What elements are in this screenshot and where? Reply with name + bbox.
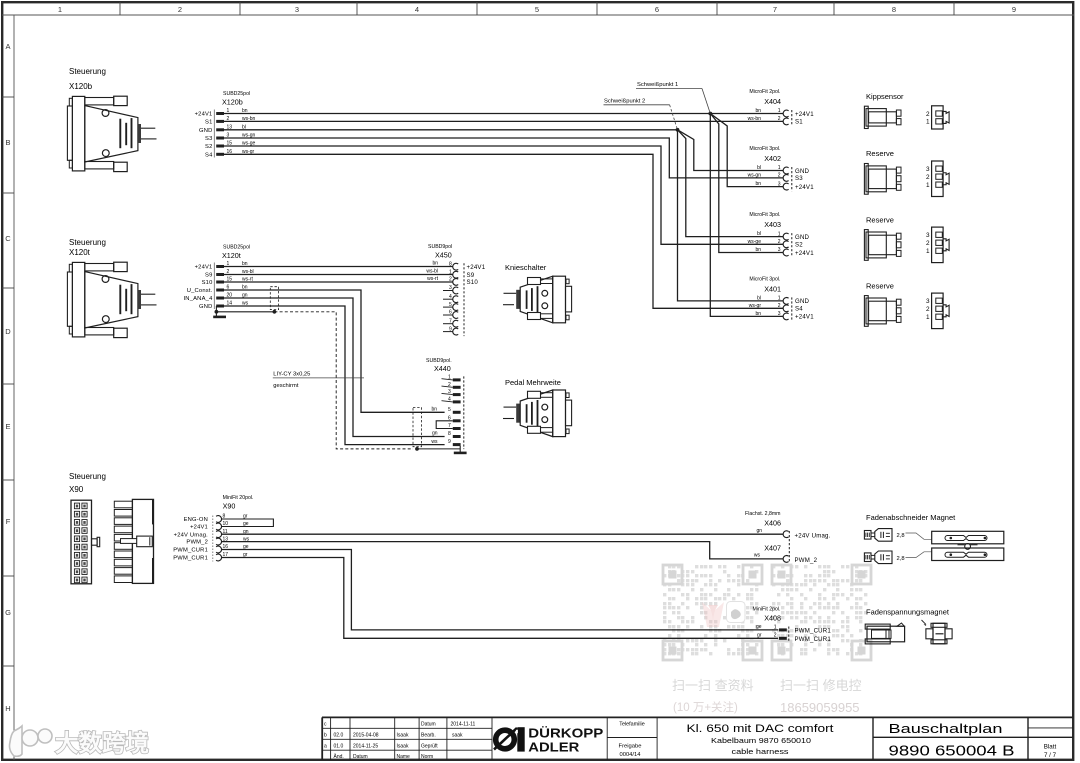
- svg-text:MiniFit 20pol.: MiniFit 20pol.: [223, 495, 254, 501]
- magnet coupling circle: [965, 544, 971, 550]
- svg-text:2: 2: [926, 240, 930, 247]
- wire bl branch to X401.1: [678, 130, 784, 301]
- svg-text:GND: GND: [795, 298, 810, 305]
- wire gn X90.11 to X406: [222, 533, 784, 535]
- svg-text:SUBD25pol: SUBD25pol: [223, 245, 250, 251]
- wire bl branch to X402.1: [678, 130, 784, 171]
- svg-text:2015-04-08: 2015-04-08: [353, 733, 379, 739]
- svg-text:IN_ANA_4: IN_ANA_4: [184, 296, 214, 302]
- wire bl branch to X403.1: [678, 130, 784, 237]
- svg-text:1: 1: [926, 119, 930, 126]
- callout Schweisspunkt 2: [604, 98, 678, 130]
- svg-text:Kl. 650 mit DAC comfort: Kl. 650 mit DAC comfort: [687, 723, 834, 735]
- svg-text:Änd.: Änd.: [334, 753, 344, 760]
- svg-text:U_Const.: U_Const.: [187, 288, 213, 294]
- svg-text:bn: bn: [755, 181, 761, 187]
- wire bn branch to X401.3: [710, 114, 783, 317]
- svg-text:MicroFit 3pol.: MicroFit 3pol.: [749, 276, 780, 282]
- cell Bauschaltplan: [889, 721, 1015, 760]
- connector Reserve 1 front view pins 3 2 1: [926, 161, 949, 197]
- magnet plate upper: [932, 531, 1004, 544]
- svg-text:7: 7: [773, 5, 777, 14]
- svg-text:2: 2: [778, 303, 781, 309]
- svg-text:2: 2: [926, 174, 930, 181]
- svg-text:SUBD9pol.: SUBD9pol.: [426, 358, 452, 364]
- svg-text:A: A: [5, 42, 10, 51]
- connector Pedal Mehrweite D-sub drawing: [503, 390, 572, 437]
- svg-text:b: b: [324, 733, 327, 739]
- svg-text:Steuerung: Steuerung: [69, 238, 106, 247]
- connector X406 X407 (Flachst. 2,8mm): [745, 511, 831, 564]
- svg-text:Telefamilie: Telefamilie: [619, 721, 644, 727]
- svg-text:X408: X408: [764, 614, 781, 623]
- svg-text:02.0: 02.0: [334, 733, 344, 739]
- svg-text:bl: bl: [757, 165, 761, 171]
- svg-text:MicroFit 2pol.: MicroFit 2pol.: [749, 89, 780, 95]
- svg-text:3: 3: [295, 5, 299, 14]
- svg-text:MiniFit 2pol.: MiniFit 2pol.: [753, 607, 781, 613]
- connector X401 (MicroFit 3pol.): [749, 276, 814, 321]
- svg-text:Fadenspannungsmagnet: Fadenspannungsmagnet: [866, 608, 950, 617]
- svg-text:GND: GND: [795, 234, 810, 241]
- wire ws-gn X120b.3 to X402.2: [224, 138, 783, 178]
- wire +24V1 bn X120b.1 to X404.1: [224, 113, 783, 115]
- svg-text:3: 3: [926, 298, 930, 305]
- svg-text:Schweißpunkt 1: Schweißpunkt 1: [637, 82, 678, 88]
- wire bl X120b.13 to Schweisspunkt 2: [224, 129, 678, 131]
- svg-text:S2: S2: [205, 144, 213, 150]
- wire gn X120t.20 to X440.8: [224, 298, 445, 437]
- svg-text:Blatt: Blatt: [1044, 744, 1057, 751]
- svg-text:H: H: [5, 704, 10, 713]
- svg-text:S3: S3: [205, 136, 213, 142]
- svg-text:3: 3: [778, 311, 781, 317]
- junction shield: [273, 310, 277, 314]
- connector X404 (MicroFit 2pol.): [748, 89, 815, 126]
- svg-text:MicroFit 3pol.: MicroFit 3pol.: [749, 146, 780, 152]
- svg-text:7 / 7: 7 / 7: [1044, 752, 1057, 759]
- svg-text:X407: X407: [764, 544, 781, 553]
- label Steuerung X90: [69, 472, 106, 494]
- svg-text:GND: GND: [199, 304, 212, 310]
- svg-text:3: 3: [926, 232, 930, 239]
- label Steuerung X120b: [69, 67, 106, 91]
- svg-text:bn: bn: [432, 261, 438, 267]
- svg-text:8: 8: [892, 5, 896, 14]
- svg-text:Fadenabschneider Magnet: Fadenabschneider Magnet: [866, 513, 956, 522]
- svg-text:PWM_2: PWM_2: [795, 557, 818, 564]
- svg-text:Norm: Norm: [421, 754, 433, 760]
- wire shield dashed to X440: [274, 312, 413, 449]
- magnet spool: [922, 620, 953, 644]
- shield marker box X440: [413, 408, 422, 447]
- svg-text:8: 8: [449, 261, 452, 267]
- svg-text:SUBD25pol: SUBD25pol: [223, 91, 250, 97]
- connector Reserve 2 front view pins 3 2 1: [926, 227, 949, 263]
- wire ge X90.16 to X408.1: [222, 550, 779, 630]
- svg-text:+24V1: +24V1: [795, 111, 814, 118]
- svg-text:Pedal Mehrweite: Pedal Mehrweite: [505, 378, 561, 387]
- svg-text:+24V1: +24V1: [190, 525, 208, 531]
- svg-text:Knieschalter: Knieschalter: [505, 263, 547, 272]
- svg-text:ws-gr: ws-gr: [749, 303, 762, 309]
- svg-text:Bauschaltplan: Bauschaltplan: [889, 721, 1003, 736]
- svg-text:a: a: [324, 744, 327, 750]
- svg-text:ws-bl: ws-bl: [426, 269, 438, 275]
- svg-text:X90: X90: [69, 485, 84, 494]
- svg-text:G: G: [5, 608, 11, 617]
- svg-text:S1: S1: [205, 120, 213, 126]
- svg-text:Steuerung: Steuerung: [69, 67, 106, 76]
- svg-text:大数跨境: 大数跨境: [55, 729, 149, 756]
- svg-text:B: B: [5, 138, 10, 147]
- svg-text:X403: X403: [764, 220, 781, 229]
- connector Fadenspannungsmagnet housing: [865, 623, 904, 644]
- svg-text:PWM_CUR1: PWM_CUR1: [795, 627, 832, 634]
- svg-text:X401: X401: [764, 284, 781, 293]
- svg-text:ws: ws: [431, 439, 438, 445]
- leader to magnet lower: [906, 552, 932, 558]
- svg-text:S1: S1: [795, 119, 803, 126]
- connector X440 (SUBD9pol.): [426, 358, 464, 449]
- svg-text:4: 4: [415, 5, 419, 14]
- svg-text:(10 万+关注): (10 万+关注): [673, 700, 738, 714]
- svg-text:+24V1: +24V1: [195, 265, 213, 271]
- svg-text:0004/14: 0004/14: [620, 752, 642, 758]
- svg-text:6: 6: [655, 5, 659, 14]
- connector X120b D-sub drawing: [67, 96, 156, 171]
- svg-text:1: 1: [58, 5, 62, 14]
- svg-text:3: 3: [926, 166, 930, 173]
- svg-text:9: 9: [1012, 5, 1016, 14]
- connector X90 front view 2x10: [71, 500, 100, 584]
- svg-text:GND: GND: [795, 168, 810, 175]
- svg-text:Reserve: Reserve: [866, 215, 894, 224]
- svg-text:5: 5: [448, 407, 451, 413]
- wire ws-gr X120b.16 to X401.2: [224, 154, 783, 308]
- svg-text:ENG-ON: ENG-ON: [184, 517, 208, 523]
- svg-text:S3: S3: [795, 175, 803, 182]
- wire bn branch to X403.3: [710, 114, 783, 253]
- svg-text:SUBD9pol: SUBD9pol: [428, 244, 452, 250]
- svg-text:2: 2: [778, 173, 781, 179]
- title block: [322, 717, 1073, 760]
- svg-text:+24V1: +24V1: [795, 250, 814, 257]
- svg-text:2014-11-25: 2014-11-25: [353, 744, 378, 750]
- svg-text:3: 3: [778, 181, 781, 187]
- svg-text:1: 1: [778, 296, 781, 302]
- svg-text:Steuerung: Steuerung: [69, 472, 106, 481]
- svg-text:S2: S2: [795, 242, 803, 249]
- svg-text:gr: gr: [757, 632, 762, 638]
- svg-text:X120t: X120t: [69, 248, 91, 257]
- svg-text:Flachst. 2,8mm: Flachst. 2,8mm: [745, 511, 780, 517]
- label Steuerung X120t: [69, 238, 106, 257]
- connector X120t pin block (SUBD25pol): [184, 245, 254, 311]
- svg-text:ws: ws: [754, 553, 761, 559]
- svg-text:ws-rt: ws-rt: [427, 276, 438, 282]
- connector Reserve 1 housing side view: [864, 164, 901, 195]
- svg-text:Datum: Datum: [421, 722, 436, 728]
- svg-text:+24V1: +24V1: [195, 112, 213, 118]
- svg-text:PWM_CUR1: PWM_CUR1: [173, 548, 208, 554]
- svg-text:Isaak: Isaak: [397, 733, 409, 739]
- svg-text:gn: gn: [432, 431, 438, 437]
- connector X408 (MiniFit 2pol.): [753, 607, 832, 644]
- svg-text:ws-bn: ws-bn: [748, 116, 762, 122]
- svg-text:Freigabe: Freigabe: [619, 743, 642, 749]
- cell Blatt: [1044, 744, 1057, 760]
- wire ws-bl X120t.2 to X450.1: [224, 274, 453, 276]
- svg-text:2: 2: [926, 111, 930, 118]
- svg-text:9890 650004 B: 9890 650004 B: [889, 744, 1015, 760]
- leader to magnet upper: [906, 533, 932, 539]
- svg-text:2: 2: [778, 116, 781, 122]
- svg-text:S9: S9: [467, 272, 475, 279]
- junction Schweisspunkt 2: [676, 128, 680, 132]
- svg-text:gn: gn: [756, 528, 762, 534]
- callout cable LIY-CY 3x0,25 geschirmt: [273, 371, 364, 389]
- svg-text:扫一扫 查资料: 扫一扫 查资料: [672, 678, 754, 693]
- cell Telefamilie / Freigabe: [619, 721, 645, 758]
- svg-text:1: 1: [926, 314, 930, 321]
- svg-text:1: 1: [778, 165, 781, 171]
- svg-text:X90: X90: [223, 502, 236, 511]
- svg-text:DÜRKOPP: DÜRKOPP: [528, 726, 603, 741]
- svg-text:bn: bn: [431, 406, 437, 412]
- connector Reserve 2 housing side view: [864, 230, 901, 261]
- wire ws X120t.14 to X440.9: [224, 306, 445, 445]
- svg-text:E: E: [5, 422, 10, 431]
- svg-text:bn: bn: [755, 311, 761, 317]
- svg-text:X450: X450: [435, 251, 452, 260]
- svg-text:1: 1: [774, 624, 777, 630]
- svg-text:5: 5: [535, 5, 539, 14]
- connector Kippsensor front view pins 2 1: [926, 106, 949, 129]
- svg-text:GND: GND: [199, 128, 212, 134]
- svg-text:2: 2: [449, 277, 452, 283]
- svg-text:X440: X440: [434, 364, 451, 373]
- svg-text:+24V1: +24V1: [467, 264, 486, 271]
- callout Schweisspunkt 1: [636, 82, 710, 114]
- connector Kippsensor housing side view: [864, 106, 901, 128]
- svg-text:bn: bn: [755, 247, 761, 253]
- svg-text:2014-11-11: 2014-11-11: [451, 722, 476, 728]
- jumper X440.6 to X440.7: [436, 421, 453, 429]
- shield marker box X120t: [270, 287, 278, 310]
- svg-text:+24V1: +24V1: [795, 184, 814, 191]
- svg-text:2,8: 2,8: [897, 533, 905, 539]
- connector X403 (MicroFit 3pol.): [748, 212, 815, 257]
- svg-text:2: 2: [178, 5, 182, 14]
- svg-text:18659059955: 18659059955: [780, 700, 860, 715]
- svg-text:1: 1: [926, 182, 930, 189]
- svg-text:2,8: 2,8: [897, 556, 905, 562]
- svg-text:Bearb.: Bearb.: [421, 733, 436, 739]
- terminal Flachsteckhuelse 2,8 upper: [864, 529, 892, 542]
- svg-text:ws-gn: ws-gn: [748, 172, 762, 178]
- svg-text:bl: bl: [757, 231, 761, 237]
- svg-text:Geprüft: Geprüft: [421, 744, 438, 750]
- svg-text:X406: X406: [764, 519, 781, 528]
- svg-text:Schweißpunkt 2: Schweißpunkt 2: [604, 98, 645, 104]
- connector X120b pin block (SUBD25pol): [195, 91, 256, 158]
- svg-text:1: 1: [778, 231, 781, 237]
- junction Schweisspunkt 1: [708, 112, 712, 116]
- connector X90 side view comb: [114, 499, 153, 583]
- connector X120t D-sub drawing: [67, 262, 156, 337]
- wire ws-bn X120b.2 to X404.2: [224, 120, 783, 122]
- svg-text:PWM_CUR1: PWM_CUR1: [795, 636, 832, 643]
- svg-text:saak: saak: [452, 733, 463, 739]
- svg-text:MicroFit 3pol.: MicroFit 3pol.: [749, 212, 780, 218]
- svg-text:S9: S9: [205, 273, 213, 279]
- svg-text:X402: X402: [764, 154, 781, 163]
- wire bn X120t.1 to X450.8: [224, 266, 453, 268]
- svg-text:PWM_2: PWM_2: [186, 540, 208, 546]
- connector X450 (SUBD9pol): [426, 244, 485, 336]
- svg-text:Kabelbaum 9870 650010: Kabelbaum 9870 650010: [711, 736, 811, 745]
- connector Reserve 3 front view pins 3 2 1: [926, 293, 949, 329]
- svg-text:S10: S10: [202, 280, 213, 286]
- svg-text:X120b: X120b: [69, 82, 93, 91]
- svg-text:1: 1: [449, 269, 452, 275]
- svg-text:2: 2: [778, 239, 781, 245]
- cell machine class: [687, 723, 834, 756]
- wire ws-ge X120b.15 to X403.2: [224, 146, 783, 244]
- connector X402 (MicroFit 3pol.): [748, 146, 815, 191]
- svg-text:2: 2: [774, 633, 777, 639]
- svg-text:ADLER: ADLER: [528, 740, 580, 755]
- svg-text:S4: S4: [205, 152, 213, 158]
- svg-text:PWM_CUR1: PWM_CUR1: [173, 556, 208, 562]
- ground X440 shield: [415, 446, 467, 453]
- svg-text:bl: bl: [757, 295, 761, 301]
- svg-text:1: 1: [926, 248, 930, 255]
- svg-text:2: 2: [926, 306, 930, 313]
- svg-text:Isaak: Isaak: [397, 744, 409, 750]
- svg-text:F: F: [6, 517, 11, 526]
- svg-text:ge: ge: [756, 624, 762, 630]
- terminal Flachsteckhuelse 2,8 lower: [864, 551, 892, 564]
- svg-text:X120b: X120b: [222, 98, 243, 107]
- ground X120t shield: [213, 306, 226, 317]
- svg-text:扫一扫 修电控: 扫一扫 修电控: [780, 678, 862, 693]
- svg-text:X120t: X120t: [222, 251, 241, 260]
- svg-text:ws-ge: ws-ge: [748, 239, 762, 245]
- svg-text:+24V Umag.: +24V Umag.: [174, 532, 209, 538]
- svg-text:Datum: Datum: [353, 754, 368, 760]
- svg-text:bn: bn: [755, 108, 761, 114]
- svg-text:Kippsensor: Kippsensor: [866, 92, 904, 101]
- svg-text:Reserve: Reserve: [866, 149, 894, 158]
- svg-text:1: 1: [778, 108, 781, 114]
- svg-text:S10: S10: [467, 279, 479, 286]
- svg-text:Name: Name: [397, 754, 411, 760]
- logo Duerkopp Adler: [494, 726, 604, 755]
- svg-text:X404: X404: [764, 97, 781, 106]
- wire ws-rt X120t.15 to X450.2: [224, 281, 453, 283]
- jumper X90.8 to X90.10: [222, 519, 274, 527]
- svg-text:LIY-CY 3x0,25: LIY-CY 3x0,25: [273, 371, 310, 377]
- svg-text:3: 3: [778, 247, 781, 253]
- svg-text:+24V1: +24V1: [795, 314, 814, 321]
- svg-text:D: D: [5, 327, 11, 336]
- svg-text:C: C: [5, 234, 11, 243]
- svg-text:8: 8: [448, 431, 451, 437]
- svg-text:+24V Umag.: +24V Umag.: [795, 532, 831, 539]
- wire gr X90.17 to X408.2: [222, 558, 779, 639]
- svg-text:Reserve: Reserve: [866, 281, 894, 290]
- wire bn X120t.6 to X440.5: [224, 290, 445, 412]
- wire bn branch to X402.3: [710, 114, 783, 187]
- connector Reserve 3 housing side view: [864, 296, 901, 327]
- svg-text:S4: S4: [795, 306, 803, 313]
- connector X90 pin block (MiniFit 20pol.): [173, 495, 253, 562]
- svg-text:geschirmt: geschirmt: [273, 383, 299, 389]
- connector Knieschalter D-sub drawing: [503, 276, 572, 323]
- wire shield drain X120t: [216, 311, 274, 313]
- svg-text:01.0: 01.0: [334, 744, 344, 750]
- wire ws X90.13 to X407: [222, 542, 784, 559]
- svg-text:cable harness: cable harness: [732, 747, 790, 756]
- magnet plate lower: [932, 548, 1004, 561]
- svg-text:9: 9: [448, 439, 451, 445]
